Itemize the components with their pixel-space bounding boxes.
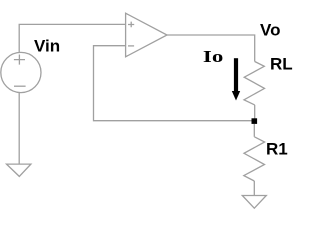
label Io	[203, 48, 223, 67]
plus marking	[14, 55, 25, 65]
ground (left, under Vin)	[7, 164, 31, 176]
op-amp U1	[126, 13, 167, 57]
feedback wire from inverting input to output node	[94, 46, 255, 121]
wire from Vin top to op-amp noninverting input	[19, 24, 125, 52]
minus input marking	[128, 45, 134, 47]
svg-text:Vin: Vin	[34, 37, 60, 56]
minus marking	[14, 85, 26, 87]
current arrow Io (black, pointing down)	[232, 58, 240, 100]
voltage source V1 (Vin)	[1, 52, 41, 92]
ground (right, under R1)	[242, 196, 266, 209]
resistor RL	[244, 62, 265, 105]
svg-text:Io: Io	[203, 48, 223, 67]
svg-text:Vo: Vo	[260, 21, 280, 40]
resistor R1	[244, 137, 265, 181]
junction node (solid square)	[252, 118, 258, 124]
wire RL bottom to junction	[254, 105, 256, 121]
output wire from op-amp to RL top	[167, 35, 255, 62]
wire from Vin bottom to ground	[18, 93, 20, 165]
svg-text:RL: RL	[270, 54, 293, 73]
wire R1 bottom to ground	[253, 181, 255, 196]
wire junction to R1 top	[253, 124, 255, 137]
plus input marking	[128, 22, 134, 28]
svg-text:R1: R1	[266, 139, 288, 158]
